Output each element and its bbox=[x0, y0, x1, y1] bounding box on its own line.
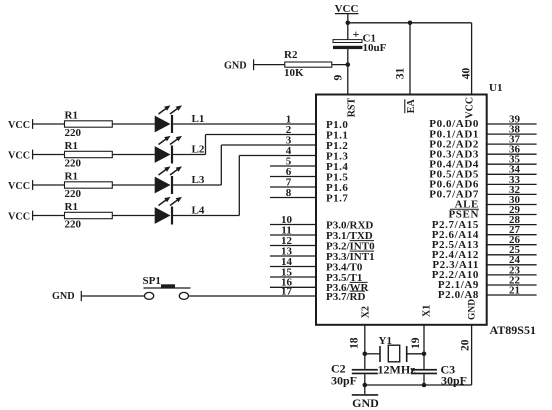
pin label P3.3 bbox=[326, 251, 375, 263]
svg-text:P1.7: P1.7 bbox=[326, 192, 348, 204]
wire VCC pin 40 drop bbox=[471, 23, 473, 96]
svg-text:VCC: VCC bbox=[8, 150, 30, 161]
ground port GND (reset) bbox=[224, 59, 254, 71]
svg-text:10K: 10K bbox=[284, 67, 304, 79]
pin 26 stub wire bbox=[487, 244, 537, 246]
pin 22 stub wire bbox=[487, 284, 537, 286]
pin 16 stub wire bbox=[270, 286, 316, 288]
wire VCC to R1 (row 4) bbox=[33, 215, 65, 217]
wire LED L1 to pin 1 bbox=[172, 123, 316, 125]
svg-text:+: + bbox=[353, 27, 360, 41]
svg-text:40: 40 bbox=[461, 68, 473, 80]
crystal Y1 bbox=[365, 345, 424, 362]
power symbol VCC (top) bbox=[335, 3, 359, 15]
svg-text:220: 220 bbox=[65, 219, 82, 231]
wire C2 to bottom rail bbox=[364, 374, 366, 385]
junction C2/rail bbox=[363, 383, 368, 388]
svg-text:VCC: VCC bbox=[465, 97, 476, 119]
pin 21 stub wire bbox=[487, 294, 537, 296]
LED L3 bbox=[155, 166, 182, 194]
resistor R1 (row 1) bbox=[65, 121, 113, 127]
pin 5 stub wire bbox=[270, 165, 316, 167]
wire LED L4 to pin 4 bbox=[172, 156, 316, 216]
power port VCC (row 1) bbox=[8, 119, 33, 131]
pin 14 stub wire bbox=[270, 266, 316, 268]
svg-text:GND: GND bbox=[468, 299, 478, 320]
wire R1 to LED L1 bbox=[112, 123, 154, 125]
pin 37 stub wire bbox=[487, 143, 537, 145]
junction X2/crystal bbox=[363, 352, 368, 357]
svg-text:U1: U1 bbox=[489, 82, 502, 94]
IC U1 AT89S51 body bbox=[316, 95, 487, 325]
pin 27 stub wire bbox=[487, 234, 537, 236]
pin 30 stub wire bbox=[487, 204, 537, 206]
LED L1 bbox=[155, 105, 182, 133]
svg-text:R2: R2 bbox=[284, 49, 298, 61]
svg-text:10uF: 10uF bbox=[363, 42, 387, 54]
wire VCC to R1 (row 2) bbox=[33, 154, 65, 156]
svg-text:VCC: VCC bbox=[8, 181, 30, 192]
LED L2 bbox=[155, 136, 182, 164]
svg-text:GND: GND bbox=[52, 291, 75, 302]
capacitor C3 bbox=[411, 369, 437, 374]
wire R1 to LED L3 bbox=[112, 184, 154, 186]
resistor R1 (row 3) bbox=[65, 182, 113, 188]
svg-text:18: 18 bbox=[349, 337, 361, 349]
svg-text:220: 220 bbox=[65, 158, 82, 170]
bottom ground rail wire bbox=[365, 384, 472, 386]
pin 10 stub wire bbox=[270, 224, 316, 226]
svg-text:X1: X1 bbox=[422, 305, 433, 317]
svg-text:12MHz: 12MHz bbox=[378, 363, 417, 377]
pin 38 stub wire bbox=[487, 133, 537, 135]
wire C1 to RST pin 9 bbox=[347, 49, 349, 95]
svg-text:220: 220 bbox=[65, 188, 82, 200]
ground symbol (bottom) bbox=[352, 385, 379, 410]
pin 39 stub wire bbox=[487, 123, 537, 125]
pin 25 stub wire bbox=[487, 254, 537, 256]
ground port GND (SP1) bbox=[52, 291, 81, 302]
pin 15 stub wire bbox=[270, 276, 316, 278]
wire VCC symbol down to tee bbox=[347, 14, 349, 40]
power port VCC (row 2) bbox=[8, 150, 33, 162]
pin X2 (18) wire upper bbox=[364, 325, 366, 369]
junction X1/crystal bbox=[422, 352, 427, 357]
svg-text:220: 220 bbox=[65, 127, 82, 139]
resistor R1 (row 2) bbox=[65, 151, 113, 157]
svg-text:AT89S51: AT89S51 bbox=[490, 323, 536, 337]
junction R2/RST net bbox=[346, 62, 351, 67]
svg-text:VCC: VCC bbox=[8, 120, 30, 131]
svg-text:31: 31 bbox=[395, 68, 407, 80]
svg-text:R1: R1 bbox=[65, 171, 78, 183]
pin 36 stub wire bbox=[487, 153, 537, 155]
pin 24 stub wire bbox=[487, 264, 537, 266]
capacitor C1 (polarized) bbox=[333, 27, 362, 49]
pin X1 (19) wire upper bbox=[423, 325, 425, 369]
svg-text:R1: R1 bbox=[65, 140, 78, 152]
switch SP1 bbox=[144, 284, 191, 299]
svg-text:19: 19 bbox=[410, 337, 422, 349]
junction VCC/RST branch bbox=[346, 21, 351, 26]
resistor R2 bbox=[285, 62, 332, 67]
wire R1 to LED L2 bbox=[112, 154, 154, 156]
svg-text:Y1: Y1 bbox=[379, 335, 392, 347]
pin 12 stub wire bbox=[270, 245, 316, 247]
wire EA pin 31 drop bbox=[409, 23, 411, 96]
svg-text:RST: RST bbox=[346, 98, 357, 118]
pin 13 stub wire bbox=[270, 255, 316, 257]
power port VCC (row 4) bbox=[8, 211, 33, 223]
svg-text:P2.0/A8: P2.0/A8 bbox=[438, 289, 479, 301]
svg-text:GND: GND bbox=[352, 396, 379, 410]
power port VCC (row 3) bbox=[8, 180, 33, 192]
wire SP1 to pin 17 bbox=[189, 295, 316, 297]
svg-text:R1: R1 bbox=[65, 110, 78, 122]
pin label P3.7 bbox=[326, 291, 365, 303]
LED L4 bbox=[155, 197, 182, 225]
wire C3 to bottom rail bbox=[423, 374, 425, 385]
pin 28 stub wire bbox=[487, 224, 537, 226]
pin 34 stub wire bbox=[487, 173, 537, 175]
pin 23 stub wire bbox=[487, 274, 537, 276]
wire LED L2 to pin 2 bbox=[172, 135, 316, 155]
wire R2 to RST net bbox=[332, 64, 348, 66]
svg-text:20: 20 bbox=[460, 339, 472, 351]
wire GND port to R2 bbox=[254, 64, 285, 66]
pin 32 stub wire bbox=[487, 193, 537, 195]
pin 33 stub wire bbox=[487, 183, 537, 185]
pin 7 stub wire bbox=[270, 186, 316, 188]
wire LED L3 to pin 3 bbox=[172, 145, 316, 185]
pin 6 stub wire bbox=[270, 176, 316, 178]
pin 8 stub wire bbox=[270, 197, 316, 199]
wire GND to SP1 bbox=[81, 295, 144, 297]
svg-text:9: 9 bbox=[333, 75, 345, 81]
pin label PSEN bbox=[448, 209, 479, 221]
junction C3/rail bbox=[422, 383, 427, 388]
svg-text:X2: X2 bbox=[361, 306, 372, 318]
pin label P3.6 bbox=[326, 282, 370, 294]
svg-text:EA: EA bbox=[406, 99, 417, 114]
wire VCC to R1 (row 3) bbox=[33, 184, 65, 186]
wire VCC to R1 (row 1) bbox=[33, 123, 65, 125]
resistor R1 (row 4) bbox=[65, 212, 113, 218]
pin 35 stub wire bbox=[487, 163, 537, 165]
pin name EA (rotated, active-low) bbox=[405, 99, 417, 114]
pin label P3.2 bbox=[326, 240, 375, 252]
svg-text:P3.7/RD: P3.7/RD bbox=[326, 291, 365, 303]
pin 29 stub wire bbox=[487, 214, 537, 216]
pin GND (20) wire bbox=[471, 325, 473, 385]
junction EA branch bbox=[408, 21, 413, 26]
wire VCC tee to pin 40 drop bbox=[348, 22, 472, 24]
capacitor C2 bbox=[352, 369, 378, 374]
pin 11 stub wire bbox=[270, 234, 316, 236]
svg-text:VCC: VCC bbox=[8, 211, 30, 222]
svg-text:30pF: 30pF bbox=[331, 373, 357, 387]
svg-text:R1: R1 bbox=[65, 201, 78, 213]
wire R1 to LED L4 bbox=[112, 215, 154, 217]
svg-text:GND: GND bbox=[224, 61, 247, 72]
svg-text:SP1: SP1 bbox=[143, 275, 161, 287]
